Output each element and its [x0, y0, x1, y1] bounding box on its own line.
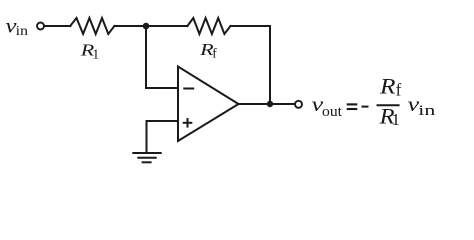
resistor Rf [187, 18, 230, 34]
svg-text:f: f [212, 47, 217, 62]
label v_in (input) [6, 16, 29, 39]
wire Rf to right corner down to output node [231, 26, 271, 104]
op-amp minus sign (inverting input) [184, 88, 193, 90]
svg-text:R: R [379, 74, 396, 99]
svg-text:1: 1 [92, 48, 99, 63]
wire feedback node down to inverting input [146, 26, 178, 88]
svg-text:in: in [16, 24, 28, 39]
wire op-amp output [239, 103, 295, 105]
node junction at output [267, 101, 273, 107]
wire input lead [44, 25, 70, 27]
wire noninverting input to ground [147, 121, 179, 152]
label R1 [80, 41, 100, 63]
terminal: v_out output [295, 101, 302, 108]
wire R1 to Rf [114, 25, 187, 27]
op-amp U1 [178, 67, 239, 142]
resistor R1 [70, 18, 114, 34]
svg-text:out: out [322, 104, 343, 120]
ground [133, 153, 160, 162]
svg-text:f: f [396, 80, 402, 100]
formula v_out = - Rf/R1 v_in [312, 74, 436, 130]
svg-text:in: in [418, 103, 436, 119]
label Rf [199, 40, 217, 62]
node junction at inverting input [143, 23, 150, 30]
op-amp plus sign (noninverting input) [184, 119, 192, 127]
terminal: v_in input [37, 23, 44, 30]
svg-text:1: 1 [392, 110, 401, 129]
